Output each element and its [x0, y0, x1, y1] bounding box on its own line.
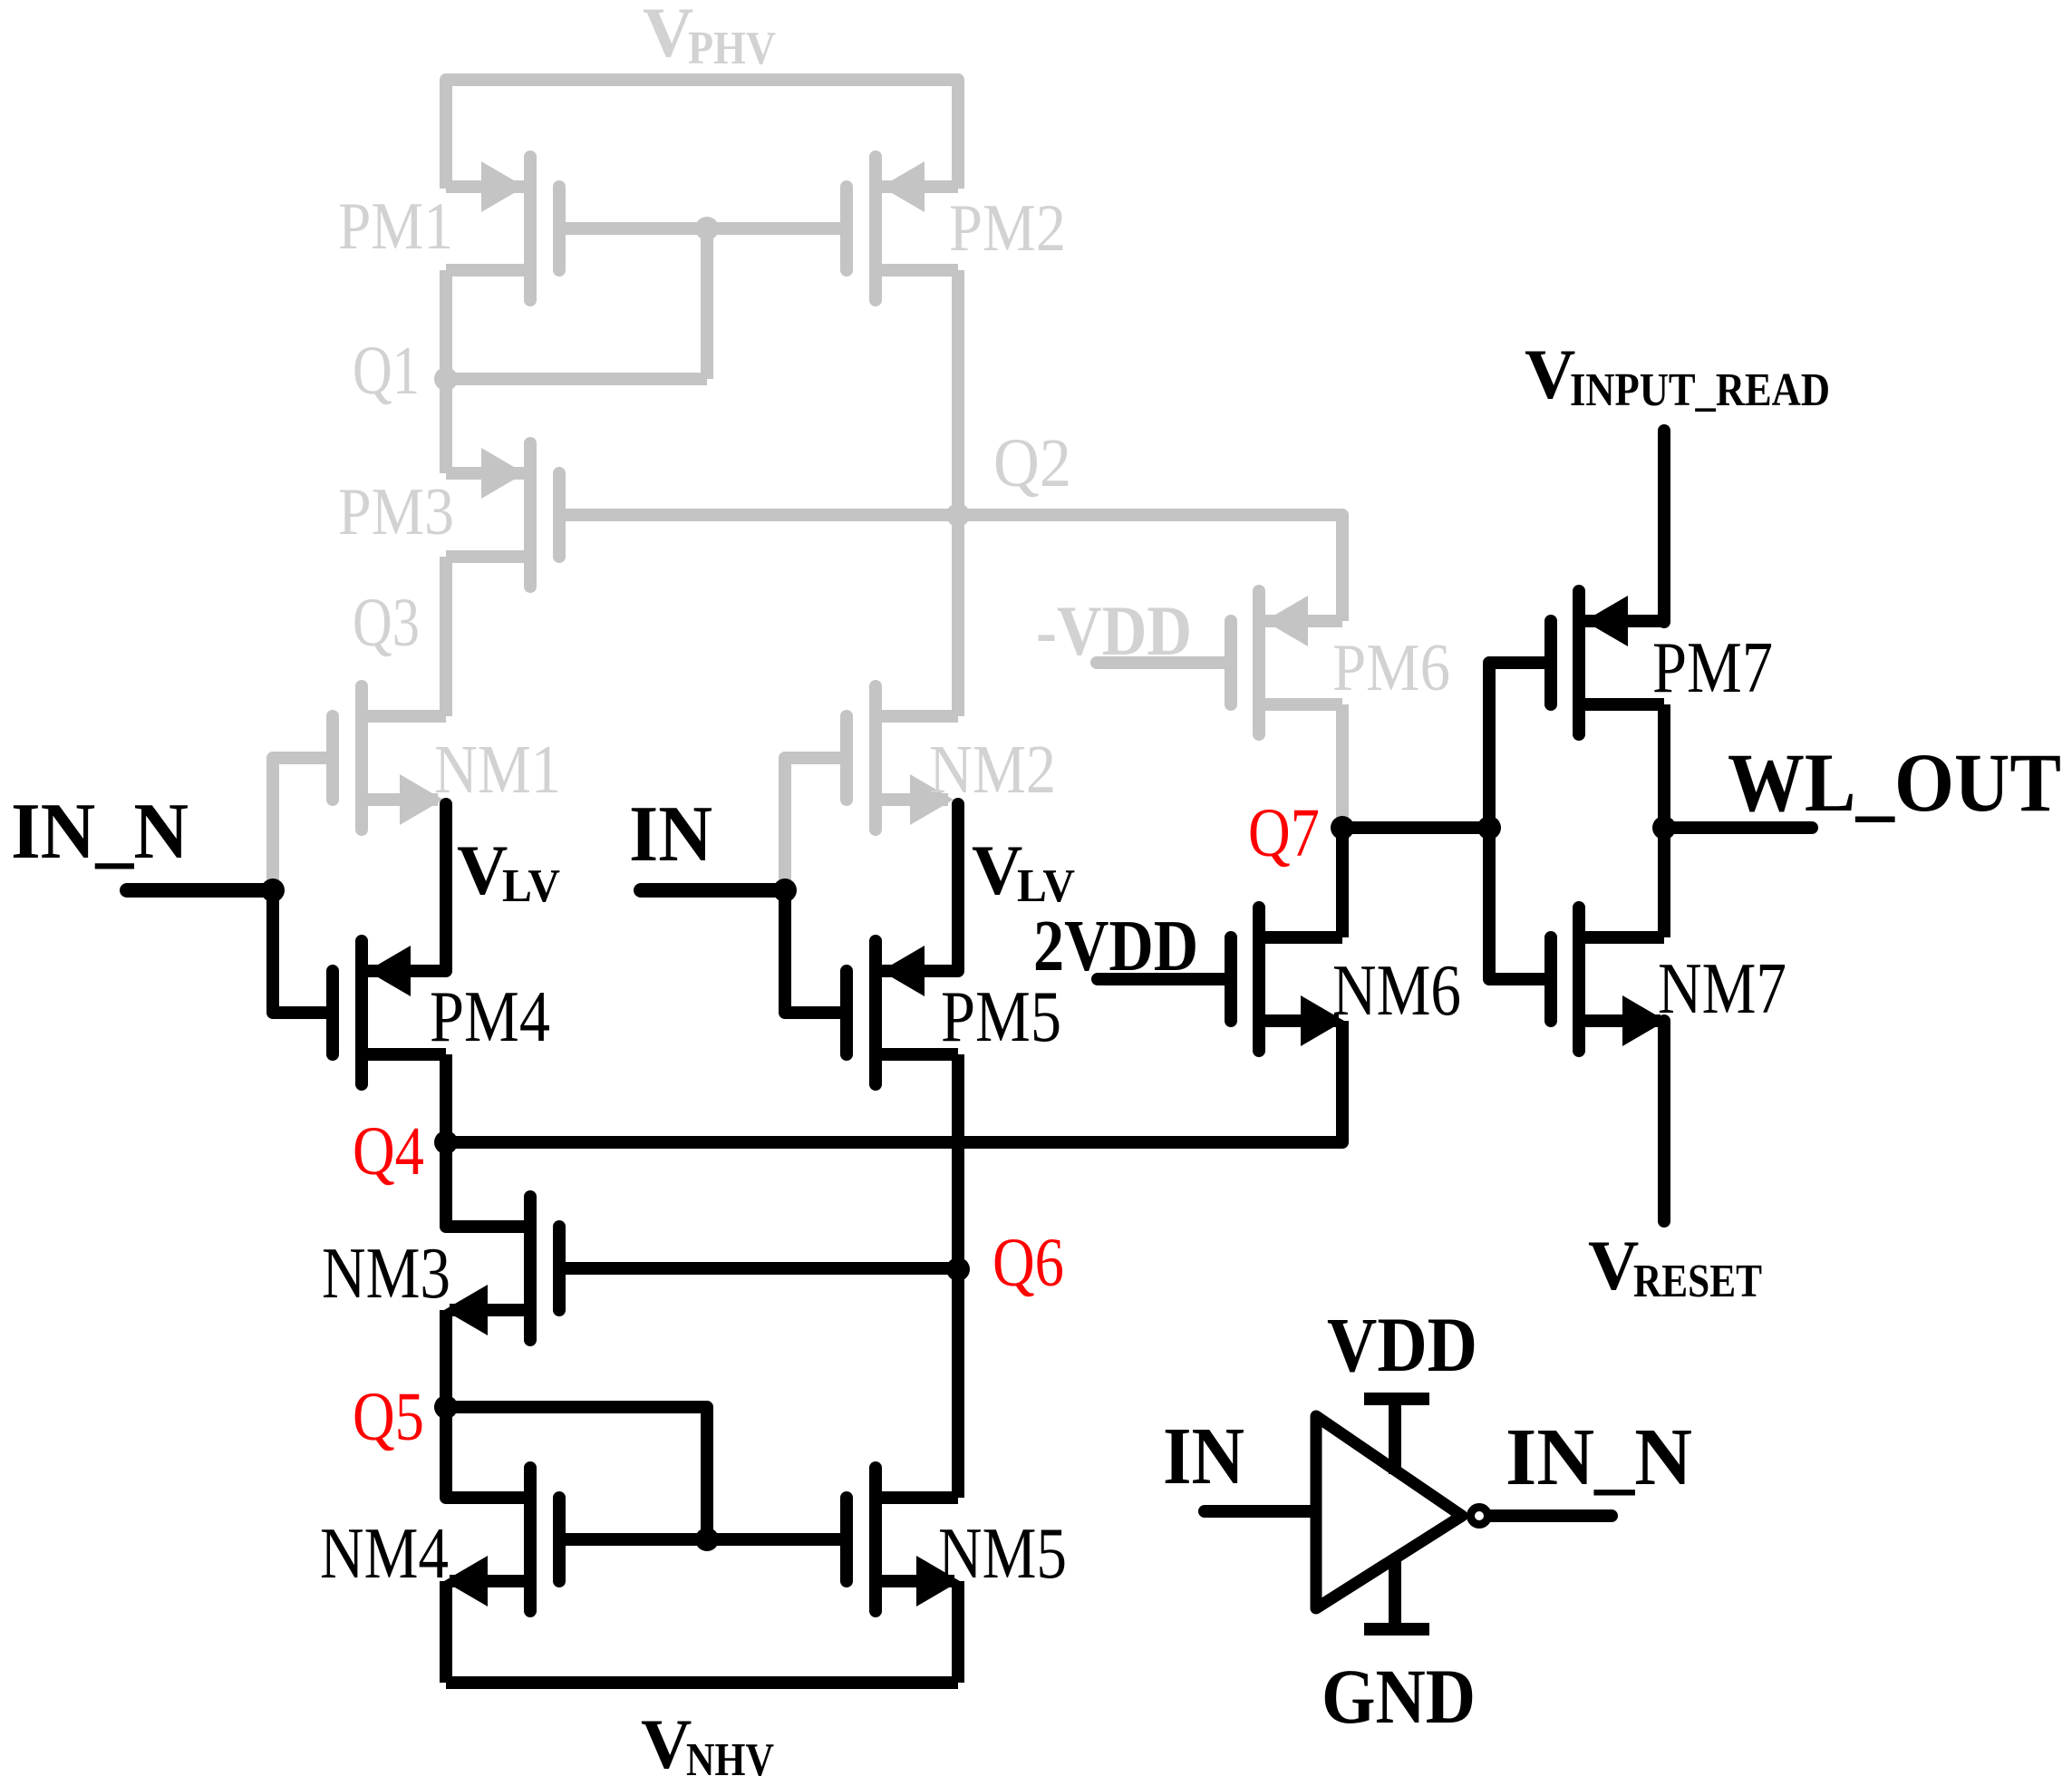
- svg-text:Q3: Q3: [353, 585, 420, 661]
- transistor NM5: [847, 1468, 960, 1611]
- svg-text:VDD: VDD: [1327, 1301, 1477, 1388]
- label V_LV right: [972, 830, 1075, 912]
- label NM5: [938, 1514, 1067, 1594]
- transistor NM1: [333, 686, 443, 830]
- node Q1 junction: [434, 367, 458, 391]
- wire PM5 drain to node Q6: [952, 1054, 964, 1269]
- transistor PM1: [446, 157, 559, 300]
- node WL_OUT junction: [1652, 816, 1676, 840]
- transistor PM7: [1551, 591, 1664, 734]
- port IN label: [629, 791, 712, 878]
- junction NM4 NM5 gate node: [695, 1528, 719, 1551]
- label PM6: [1332, 631, 1450, 705]
- junction gate line: [1477, 816, 1501, 840]
- svg-text:PM3: PM3: [338, 475, 454, 549]
- label Q2: [993, 425, 1071, 501]
- wire NM2 gate to IN node: [785, 758, 847, 883]
- wire IN input: [641, 883, 785, 898]
- svg-text:Q4: Q4: [353, 1113, 424, 1189]
- svg-text:-VDD: -VDD: [1036, 591, 1192, 670]
- label NM1: [434, 732, 561, 808]
- transistor NM7: [1551, 908, 1666, 1051]
- wire node Q5 to NM4 NM5 gates: [446, 1407, 707, 1539]
- label Q3: [353, 585, 420, 661]
- wire NM4 source to V_NHV rail: [440, 1581, 452, 1683]
- node Q4 junction: [434, 1131, 458, 1154]
- label PM5: [941, 977, 1061, 1057]
- wire gate node to Q1: [701, 228, 713, 379]
- svg-text:V: V: [972, 830, 1022, 909]
- transistor NM4: [444, 1468, 559, 1611]
- label Q1: [353, 333, 420, 409]
- svg-text:NM6: NM6: [1332, 951, 1461, 1031]
- label Q7: [1248, 795, 1320, 871]
- wire PM6 gate stub -VDD: [1097, 656, 1231, 669]
- label VDD: [1327, 1301, 1477, 1388]
- svg-text:PM2: PM2: [949, 191, 1066, 266]
- node IN junction: [773, 878, 797, 902]
- svg-text:GND: GND: [1322, 1653, 1476, 1740]
- wire NM1 gate to IN_N node: [273, 758, 333, 883]
- svg-text:IN: IN: [629, 791, 712, 878]
- label V_LV left: [457, 830, 560, 912]
- svg-text:NHV: NHV: [686, 1734, 774, 1786]
- wire WL_OUT: [1664, 821, 1812, 834]
- wire PM6 source to Q2 line: [1336, 515, 1349, 621]
- wire NM6 drain to node Q7: [1336, 828, 1349, 937]
- transistor PM4: [333, 941, 446, 1084]
- svg-text:V: V: [643, 0, 693, 72]
- terminal GND: [1364, 1558, 1429, 1629]
- svg-text:Q2: Q2: [993, 425, 1071, 501]
- label NM4: [320, 1514, 449, 1594]
- svg-text:WL_OUT: WL_OUT: [1728, 736, 2061, 829]
- node IN_N junction: [261, 878, 285, 902]
- inverter U1 triangle: [1316, 1416, 1462, 1608]
- node Q5 junction: [434, 1395, 458, 1419]
- port IN label inverter: [1163, 1412, 1244, 1501]
- wire PM6 drain to node Q7: [1336, 704, 1349, 821]
- svg-text:LV: LV: [1017, 860, 1075, 912]
- svg-text:PM1: PM1: [338, 189, 453, 264]
- svg-text:LV: LV: [502, 860, 560, 912]
- transistor NM6: [1231, 908, 1344, 1051]
- svg-text:IN: IN: [1163, 1412, 1244, 1501]
- transistor PM5: [847, 941, 958, 1084]
- wire V_PHV rail: [446, 80, 958, 189]
- inverter U1 bubble: [1471, 1508, 1488, 1525]
- wire 2VDD stub to NM6 gate: [1098, 973, 1231, 985]
- label NM6: [1332, 951, 1461, 1031]
- label V_NHV: [641, 1704, 774, 1786]
- svg-text:Q1: Q1: [353, 333, 420, 409]
- port IN_N label: [11, 788, 189, 876]
- junction gate node: [695, 217, 719, 240]
- svg-text:Q5: Q5: [353, 1379, 424, 1455]
- transistor PM6: [1231, 591, 1342, 734]
- wire NM5 source to V_NHV rail: [952, 1581, 964, 1683]
- wire node Q1: [446, 373, 707, 385]
- wire inverter output: [1492, 1509, 1612, 1522]
- transistor NM3: [444, 1197, 559, 1340]
- node Q2 junction: [946, 503, 970, 527]
- svg-text:PM5: PM5: [941, 977, 1061, 1057]
- label PM3: [338, 475, 454, 549]
- transistor NM2: [847, 686, 954, 830]
- node Q6 junction: [946, 1257, 970, 1281]
- label PM1: [338, 189, 453, 264]
- label PM4: [430, 977, 550, 1057]
- transistor PM2: [847, 157, 958, 300]
- label GND: [1322, 1653, 1476, 1740]
- wire NM6 source to node Q4: [446, 1021, 1342, 1142]
- svg-text:Q6: Q6: [992, 1225, 1064, 1301]
- svg-text:NM4: NM4: [320, 1514, 449, 1594]
- svg-text:NM1: NM1: [434, 732, 561, 808]
- svg-text:V: V: [641, 1704, 692, 1783]
- port IN_N label inverter: [1506, 1412, 1692, 1502]
- label PM2: [949, 191, 1066, 266]
- wire PM1 gate to PM2 gate: [559, 222, 847, 235]
- svg-text:IN_N: IN_N: [11, 788, 189, 876]
- node Q7 junction: [1331, 816, 1354, 840]
- label NM3: [322, 1234, 450, 1314]
- svg-text:Q7: Q7: [1248, 795, 1320, 871]
- wire IN_N to PM4 gate: [273, 890, 333, 1013]
- svg-text:PM6: PM6: [1332, 631, 1450, 705]
- svg-text:PM4: PM4: [430, 977, 550, 1057]
- svg-text:NM7: NM7: [1658, 949, 1786, 1029]
- terminal V_LV bar left: [440, 804, 452, 971]
- svg-text:PHV: PHV: [688, 23, 776, 74]
- svg-text:PM7: PM7: [1652, 628, 1773, 708]
- label V_RESET: [1588, 1226, 1762, 1307]
- wire PM7 gate line: [1489, 663, 1551, 979]
- label V_INPUT_READ: [1525, 335, 1830, 416]
- wire node Q5 to NM4 drain: [446, 1407, 524, 1498]
- label Q6: [992, 1225, 1064, 1301]
- net V_PHV label: [643, 0, 776, 74]
- wire NM1 drain to Q3 column: [368, 710, 446, 723]
- transistor PM3: [446, 443, 559, 587]
- svg-text:NM3: NM3: [322, 1234, 450, 1314]
- wire PM1 drain to PM3 source: [440, 270, 452, 473]
- port WL_OUT label: [1728, 736, 2061, 829]
- wire NM7 source to V_RESET: [1658, 1021, 1670, 1221]
- svg-text:V: V: [457, 830, 508, 909]
- label PM7: [1652, 628, 1773, 708]
- label NM2: [929, 732, 1056, 808]
- svg-text:V: V: [1588, 1226, 1639, 1305]
- svg-text:RESET: RESET: [1633, 1256, 1762, 1307]
- terminal VDD: [1364, 1399, 1429, 1474]
- wire NM3 gate to node Q6: [559, 1262, 958, 1275]
- wire node Q2 PM3 gate to PM6 source: [559, 515, 1342, 580]
- svg-text:INPUT_READ: INPUT_READ: [1570, 364, 1830, 416]
- wire node Q4 to NM3 drain: [446, 1142, 524, 1227]
- wire NM3 source to node Q5: [440, 1310, 452, 1407]
- svg-text:NM2: NM2: [929, 732, 1056, 808]
- wire IN_N input: [127, 883, 273, 898]
- wire PM7 drain to WL_OUT: [1658, 704, 1670, 828]
- label Q5: [353, 1379, 424, 1455]
- label -VDD: [1036, 591, 1192, 670]
- wire PM4 drain to node Q4: [440, 1054, 452, 1142]
- label 2VDD: [1033, 907, 1198, 986]
- wire NM2 drain lead: [882, 710, 958, 723]
- terminal V_LV bar right: [952, 804, 964, 971]
- wire node Q7 to inverter input: [1342, 821, 1489, 834]
- wire inverter input: [1205, 1505, 1314, 1518]
- wire PM2 drain to NM2 drain: [952, 270, 964, 716]
- wire NM4 gate to NM5 gate: [559, 1533, 847, 1546]
- wire NM7 drain to WL_OUT: [1658, 828, 1670, 937]
- wire node Q3 PM3 drain to NM1 drain: [440, 557, 452, 716]
- svg-text:V: V: [1525, 335, 1575, 413]
- wire NM5 drain to node Q6: [952, 1269, 964, 1498]
- label Q4: [353, 1113, 424, 1189]
- label NM7: [1658, 949, 1786, 1029]
- wire V_NHV rail: [446, 1676, 958, 1689]
- wire V_INPUT_READ to PM7 source: [1658, 431, 1670, 622]
- wire IN to PM5 gate: [785, 890, 847, 1013]
- svg-text:IN_N: IN_N: [1506, 1412, 1692, 1502]
